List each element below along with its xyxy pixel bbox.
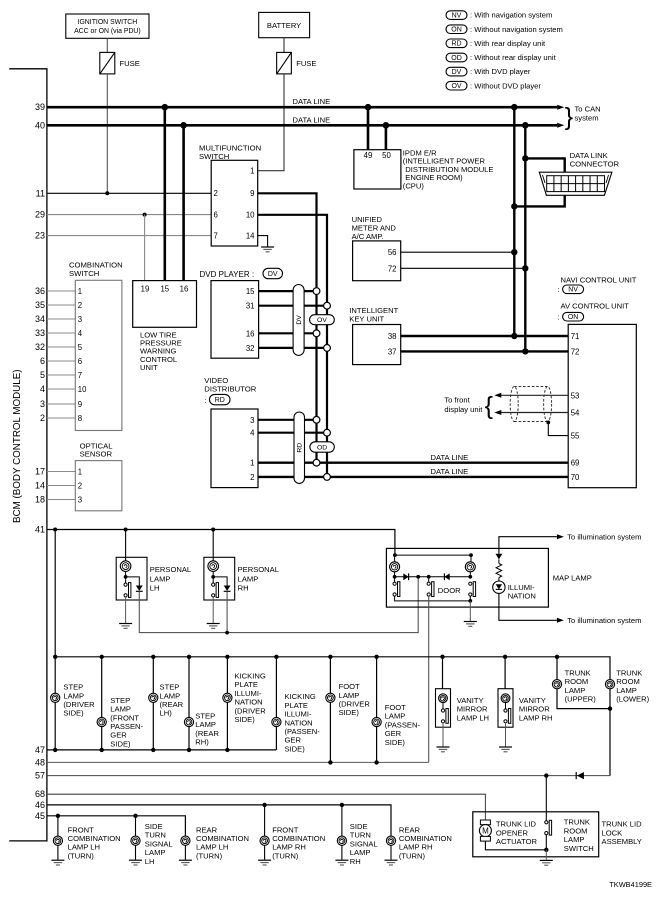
wire lamp drop x=153.3 [152, 657, 154, 750]
svg-text:SIDE): SIDE) [63, 709, 84, 718]
door switch map right [469, 582, 476, 597]
wire resistor to LED [498, 578, 500, 582]
wire ignition to fuse [106, 38, 108, 52]
svg-text:MIRROR: MIRROR [519, 705, 550, 714]
lamp bulb vanity RH [501, 694, 510, 703]
label capsule NV [563, 285, 584, 294]
lamp bulb front combination lamp LH [53, 836, 62, 845]
junction bus/lamp 11 [555, 655, 559, 659]
wire trunk switch drop [545, 776, 547, 821]
wire personal LH to diode [126, 577, 140, 586]
wire front combination lamp RH drop [264, 805, 266, 860]
svg-text:2: 2 [40, 413, 45, 423]
junction personal LH split [124, 575, 128, 579]
junction map lamp right lamp [469, 553, 473, 557]
svg-text:To illumination system: To illumination system [567, 616, 641, 625]
label TRUNK LID LOCK ASSEMBLY [602, 820, 643, 847]
svg-text:39: 39 [35, 102, 45, 112]
wire DVD pin 15 to joint [259, 290, 317, 292]
svg-text:BCM (BODY CONTROL MODULE): BCM (BODY CONTROL MODULE) [12, 370, 23, 524]
bus wire 1 (CAN-H) [513, 107, 515, 336]
svg-text:LAMP: LAMP [160, 691, 181, 700]
wire video pin 3 to joint [258, 419, 317, 421]
svg-text:TRUNK: TRUNK [616, 668, 642, 677]
svg-text:To front: To front [444, 396, 470, 405]
resistor illumination [496, 564, 502, 578]
svg-text:5: 5 [40, 370, 45, 380]
legend symbol DV [446, 67, 467, 76]
svg-text:(DRIVER: (DRIVER [63, 700, 95, 709]
wire multifunction pin 9 to joints [258, 193, 317, 462]
svg-text:69: 69 [571, 459, 580, 468]
svg-text:53: 53 [571, 391, 580, 400]
svg-text::: : [558, 313, 560, 322]
wire 68 trunk opener [47, 794, 486, 820]
junction bus/lamp 3 [151, 655, 155, 659]
wire key 37 to AV 72 [401, 350, 569, 352]
arrow to CAN (line 40) [557, 123, 564, 128]
wire trunk upper lamp drop [557, 657, 610, 709]
label FOOT LAMP (PASSENGER SIDE) [385, 703, 421, 747]
personal lamp RH box [204, 557, 235, 600]
svg-text:SWITCH: SWITCH [199, 152, 229, 161]
data link connector drawing [539, 172, 612, 195]
svg-text:50: 50 [382, 151, 391, 160]
svg-text:TRUNK: TRUNK [565, 668, 591, 677]
svg-text:57: 57 [35, 771, 45, 781]
svg-text:MAP LAMP: MAP LAMP [553, 574, 592, 583]
wire 45 LH turn return [47, 816, 186, 841]
junction map lamp feed [393, 553, 397, 557]
svg-text:9: 9 [78, 400, 82, 409]
ground (rear combination lamp LH) [179, 860, 192, 865]
svg-text:ACC or ON (via PDU): ACC or ON (via PDU) [74, 28, 141, 35]
arrow to illumination system (top) [557, 534, 564, 539]
junction 56/bus1 [511, 249, 517, 255]
wire BCM 18 to optical sensor 3 [47, 499, 75, 501]
svg-text:ACTUATOR: ACTUATOR [496, 837, 538, 846]
svg-text:(TURN): (TURN) [272, 851, 299, 860]
wire map left switch stem [394, 577, 396, 583]
svg-text:32: 32 [246, 344, 255, 353]
label SIDE TURN SIGNAL LAMP LH [145, 822, 173, 866]
junction 29/low-tire 19 [143, 213, 147, 217]
wire feed personal lamp LH [125, 530, 127, 562]
label ILLUMI-NATION [508, 583, 536, 601]
wire BCM 35 to combination switch 2 [47, 304, 75, 306]
junction 40/low-tire [180, 122, 187, 129]
svg-text:SIDE): SIDE) [339, 708, 360, 717]
svg-text:LAMP: LAMP [565, 686, 586, 695]
ground (trunk lid assembly) [540, 860, 553, 865]
wire illumination bottom [499, 593, 557, 620]
svg-text:SIDE): SIDE) [110, 739, 131, 748]
svg-text:55: 55 [571, 432, 580, 441]
label REAR COMBINATION LAMP LH [196, 825, 249, 860]
junction 45 side LH [133, 814, 137, 818]
svg-text:8: 8 [78, 414, 82, 423]
svg-text:TURN: TURN [145, 831, 166, 840]
junction bus/lamp 7 [328, 655, 332, 659]
svg-text:FUSE: FUSE [120, 59, 140, 68]
wire trunk ground stem [545, 850, 547, 860]
svg-text:COMBINATION: COMBINATION [68, 834, 121, 843]
svg-text:CONNECTOR: CONNECTOR [570, 159, 620, 168]
lamp bulb side turn signal lamp RH [337, 836, 346, 845]
svg-text:(DRIVER: (DRIVER [339, 700, 371, 709]
svg-text:LOCK: LOCK [602, 828, 623, 837]
label KICKING PLATE ILLUMINATION (DRIVER SIDE) [235, 672, 267, 725]
lamp bulb front combination lamp RH [260, 836, 269, 845]
svg-text:COMBINATION: COMBINATION [399, 834, 452, 843]
svg-text:MIRROR: MIRROR [457, 705, 488, 714]
wire rear combination lamp RH stem [390, 841, 392, 860]
svg-text:A/C AMP.: A/C AMP. [352, 232, 384, 241]
joint connector VID1/line69 [313, 459, 320, 466]
label VIDEO DISTRIBUTOR [204, 376, 256, 393]
label OPTICAL SENSOR [80, 441, 114, 458]
svg-text:RH: RH [350, 857, 361, 866]
junction map row C [427, 575, 431, 579]
svg-text:LAMP RH: LAMP RH [272, 843, 306, 852]
junction 48 foot passenger [374, 760, 378, 764]
svg-text:2: 2 [214, 189, 218, 198]
wire BCM 17 to optical sensor 1 [47, 471, 75, 473]
svg-text:36: 36 [35, 286, 45, 296]
svg-text:3: 3 [78, 496, 82, 505]
svg-text:48: 48 [35, 757, 45, 767]
legend symbol OD [446, 53, 467, 62]
svg-text:7: 7 [214, 231, 218, 240]
label capsule ON [563, 312, 584, 321]
svg-text:NAVI CONTROL UNIT: NAVI CONTROL UNIT [561, 276, 637, 285]
svg-text:OD: OD [317, 444, 327, 451]
svg-text:{: { [485, 392, 493, 420]
wire personal RH switch to ground [212, 596, 214, 623]
junction 47 at 189.0 [187, 748, 191, 752]
label FRONT COMBINATION LAMP RH [272, 825, 325, 860]
svg-text:}: } [565, 103, 573, 131]
svg-text:DVD PLAYER :: DVD PLAYER : [200, 270, 255, 279]
ground (front combination lamp LH) [51, 860, 64, 865]
shield around 53/54 [510, 387, 551, 422]
junction 41/step bus [53, 528, 57, 532]
svg-text:IGNITION SWITCH: IGNITION SWITCH [78, 19, 138, 26]
svg-text:4: 4 [40, 384, 45, 394]
svg-text:REAR: REAR [196, 825, 218, 834]
wire BCM 14 to optical sensor 2 [47, 485, 75, 487]
svg-text:18: 18 [35, 495, 45, 505]
svg-text:1: 1 [250, 459, 254, 468]
wire AV pin 54 to front display [497, 412, 568, 414]
svg-text:DV: DV [296, 315, 303, 325]
joint connector VID3/pin9 [313, 416, 320, 423]
door switch map left [393, 582, 400, 597]
joint connector DVD31/pin10 [324, 302, 331, 309]
junction diode bus [225, 631, 229, 635]
svg-text:SIDE): SIDE) [285, 744, 306, 753]
fuse F2 (battery) [277, 52, 292, 74]
wire lamp drop x=330.4 [329, 657, 331, 763]
label LOW TIRE PRESSURE WARNING CONTROL UNIT [140, 331, 182, 372]
step/room lamp bus [55, 657, 610, 776]
wire 11 to multifunction pin 2 [47, 192, 211, 194]
junction bus/lamp 10 [503, 655, 507, 659]
wire video pin 2 / data line 70 [258, 476, 568, 478]
svg-text:68: 68 [35, 789, 45, 799]
wire BCM 5 to combination switch 7 [47, 374, 75, 376]
svg-text:SWITCH: SWITCH [564, 844, 594, 853]
svg-text:(PASSEN-: (PASSEN- [385, 720, 421, 729]
label TRUNK ROOM LAMP SWITCH [564, 818, 594, 853]
diode trunk lamp line 57 [576, 772, 584, 779]
door switch personal LH [124, 583, 131, 598]
trunk room lamp switch [545, 820, 552, 835]
label capsule RD [210, 394, 231, 404]
junction 48 foot driver [328, 760, 332, 764]
lamp bulb trunk room upper [552, 680, 561, 689]
low tire pressure warning control unit box [133, 281, 197, 328]
svg-text:15: 15 [246, 287, 255, 296]
wire low-tire pin 19 [144, 215, 146, 281]
BCM (body control module) boundary [9, 69, 47, 841]
wire DVD pin 32 to joint [259, 347, 327, 349]
junction bus/lamp 4 [187, 655, 191, 659]
junction map ground [468, 599, 472, 603]
legend symbol NV [446, 11, 467, 20]
svg-text:71: 71 [571, 332, 580, 341]
svg-text:DOOR: DOOR [438, 586, 461, 595]
wire low-tire pin 16 [182, 125, 185, 280]
unified meter and A/C amp box [353, 241, 401, 281]
wire feed personal lamp RH [212, 530, 214, 562]
svg-text:38: 38 [388, 332, 397, 341]
wire BCM 33 to combination switch 4 [47, 332, 75, 334]
legend symbol RD [446, 39, 467, 48]
arrow to front display (53) [494, 393, 501, 398]
svg-text::: : [558, 285, 560, 294]
svg-text:7: 7 [78, 371, 82, 380]
junction 38/bus1 [511, 333, 517, 339]
svg-text:(DRIVER: (DRIVER [235, 706, 267, 715]
bus wire 2 (CAN-L) [524, 125, 526, 351]
lamp bulb step rear RH [184, 717, 193, 726]
svg-text:PLATE: PLATE [235, 680, 259, 689]
video distributor box [211, 409, 258, 488]
wire 41 interior lamp feed [47, 530, 395, 556]
combination switch box [75, 280, 122, 430]
svg-text:NATION: NATION [285, 718, 313, 727]
svg-text:PERSONAL: PERSONAL [238, 565, 279, 574]
label PERSONAL LAMP LH [150, 565, 191, 593]
svg-text:2: 2 [78, 301, 82, 310]
wire DVD pin 31 to joint [259, 305, 327, 307]
wire map diode row [395, 572, 471, 577]
svg-text:TURN: TURN [350, 831, 371, 840]
svg-text:FRONT: FRONT [272, 825, 299, 834]
wire fuse to multifunction pin 1 [258, 74, 284, 171]
battery supply box [259, 12, 310, 37]
svg-text:15: 15 [160, 285, 169, 294]
label To front display unit [444, 396, 483, 414]
option capsule OV [310, 315, 335, 325]
svg-text:(UPPER): (UPPER) [565, 695, 597, 704]
label DATA LINK CONNECTOR [570, 151, 620, 168]
svg-text:LAMP: LAMP [238, 574, 259, 583]
ground (personal lamp LH) [119, 624, 132, 629]
svg-text:ILLUMI-: ILLUMI- [235, 689, 262, 698]
IPDM E/R box [354, 150, 401, 189]
legend symbol OV [446, 81, 467, 90]
optical sensor box [75, 461, 122, 511]
svg-text:33: 33 [35, 328, 45, 338]
switch vanity RH [504, 709, 511, 724]
wire 47 step/kicking return [47, 749, 277, 751]
svg-text:UNIT: UNIT [140, 363, 158, 372]
svg-text:RD: RD [215, 397, 225, 404]
svg-text:NATION: NATION [235, 698, 263, 707]
svg-text:DATA LINE: DATA LINE [431, 467, 469, 476]
wire DVD pin 16 to joint [259, 332, 317, 334]
svg-text:REAR: REAR [399, 825, 421, 834]
wire BCM 32 to combination switch 5 [47, 346, 75, 348]
svg-text:SIGNAL: SIGNAL [145, 839, 173, 848]
motor trunk lid opener actuator [479, 820, 491, 841]
label TRUNK LID OPENER ACTUATOR [496, 820, 538, 847]
svg-text:23: 23 [35, 231, 45, 241]
lamp bulb kicking passenger [272, 717, 281, 726]
wire vanity RH ground stem [505, 723, 507, 747]
wire 40 CAN data line [47, 124, 557, 127]
wire BCM 6 to combination switch 6 [47, 360, 75, 362]
svg-text:LAMP: LAMP [385, 712, 406, 721]
svg-text:DV: DV [452, 69, 462, 76]
junction 40/IPDM [383, 122, 390, 129]
lamp bulb vanity LH [439, 694, 448, 703]
svg-text:LAMP: LAMP [63, 691, 84, 700]
svg-text:LAMP: LAMP [339, 691, 360, 700]
wire 23 to multifunction pin 7 [47, 235, 211, 237]
junction map row B [416, 575, 420, 579]
svg-text:2: 2 [78, 482, 82, 491]
map lamp assembly box [386, 548, 548, 607]
wire BCM 3 to combination switch 9 [47, 403, 75, 405]
arrow to CAN (line 39) [557, 105, 564, 110]
svg-text:NV: NV [568, 287, 578, 294]
ground (multifunction pin 14) [261, 247, 274, 252]
svg-text:6: 6 [40, 356, 45, 366]
legend symbol ON [446, 25, 467, 34]
svg-text:2: 2 [250, 473, 254, 482]
wire key 38 to AV 71 [401, 335, 569, 337]
svg-text:ROOM: ROOM [564, 826, 588, 835]
junction 46 front RH [262, 803, 266, 807]
lamp bulb personal LH [120, 561, 131, 572]
wire fuse to node 11 [106, 74, 108, 193]
svg-text:29: 29 [35, 210, 45, 220]
junction bus/lamp 1 [53, 655, 57, 659]
wire battery to fuse [283, 38, 285, 53]
label To CAN system [575, 104, 601, 122]
svg-text:54: 54 [571, 409, 580, 418]
svg-text:STEP: STEP [110, 696, 130, 705]
wire AV pin 53 to front display [497, 394, 568, 396]
wire vanity LH drop [442, 657, 444, 689]
junction 45 front LH [56, 814, 60, 818]
svg-text:LH: LH [150, 584, 160, 593]
svg-text:FOOT: FOOT [385, 703, 406, 712]
svg-text:(REAR: (REAR [160, 700, 184, 709]
label FRONT COMBINATION LAMP LH [68, 825, 121, 860]
svg-text:4: 4 [78, 329, 83, 338]
svg-text:41: 41 [35, 525, 45, 535]
svg-text:DISTRIBUTOR: DISTRIBUTOR [204, 385, 256, 394]
svg-text:37: 37 [388, 347, 397, 356]
svg-text:14: 14 [35, 481, 45, 491]
label SIDE TURN SIGNAL LAMP RH [350, 822, 378, 866]
label TRUNK ROOM LAMP (LOWER) [616, 668, 649, 703]
label STEP LAMP (DRIVER SIDE) [63, 683, 95, 718]
svg-text:M: M [482, 827, 489, 836]
wire rear combination lamp LH stem [184, 841, 186, 860]
svg-text:ASSEMBLY: ASSEMBLY [602, 837, 642, 846]
svg-text:COMBINATION: COMBINATION [196, 834, 249, 843]
wire multifunction pin 14 to ground [258, 236, 268, 247]
svg-text:TRUNK LID: TRUNK LID [602, 820, 643, 829]
svg-text:SIDE): SIDE) [235, 715, 256, 724]
wire BCM 2 to combination switch 8 [47, 417, 75, 419]
wire map ground stem [469, 601, 471, 621]
svg-text:NATION: NATION [508, 591, 536, 600]
svg-text:LAMP RH: LAMP RH [519, 713, 553, 722]
svg-text:ROOM: ROOM [565, 677, 589, 686]
svg-text:TRUNK LID: TRUNK LID [496, 820, 537, 829]
svg-text:3: 3 [250, 416, 254, 425]
label IPDM E/R [403, 148, 494, 190]
svg-text:STEP: STEP [63, 683, 83, 692]
wire multifunction pin 10 to joints [258, 215, 327, 477]
svg-text:70: 70 [571, 473, 580, 482]
svg-text:RH: RH [238, 584, 249, 593]
wire DLC top [525, 158, 564, 172]
wire side turn signal lamp LH drop [135, 816, 137, 860]
wire lamp drop x=101.7 [101, 657, 103, 750]
label STEP LAMP (REAR RH) [195, 712, 219, 747]
svg-text:9: 9 [250, 189, 254, 198]
lamp bulb foot passenger [372, 717, 381, 726]
LED illumination lamp [493, 581, 505, 593]
svg-text:LAMP LH: LAMP LH [457, 713, 489, 722]
svg-text:LAMP LH: LAMP LH [68, 843, 100, 852]
junction bus/lamp 8 [374, 655, 378, 659]
ground (side turn signal lamp RH) [335, 860, 348, 865]
svg-text:: Without navigation system: : Without navigation system [470, 25, 563, 34]
svg-text:FRONT: FRONT [68, 825, 95, 834]
label TRUNK ROOM LAMP (UPPER) [565, 668, 597, 703]
junction 39/IPDM [365, 104, 372, 111]
junction bus/lamp 9 [440, 655, 444, 659]
svg-text:: With rear display unit: : With rear display unit [470, 39, 546, 48]
svg-text:45: 45 [35, 811, 45, 821]
wire shield to AV pin 55 [548, 422, 568, 435]
wire vanity LH ground stem [442, 723, 444, 747]
svg-text:LAMP: LAMP [110, 705, 131, 714]
svg-text:(TURN): (TURN) [196, 851, 223, 860]
svg-text:6: 6 [78, 357, 82, 366]
svg-text:TKWB4199E: TKWB4199E [609, 880, 652, 889]
wire personal RH internal [212, 571, 214, 583]
arrow to illumination system (bottom) [557, 618, 564, 623]
